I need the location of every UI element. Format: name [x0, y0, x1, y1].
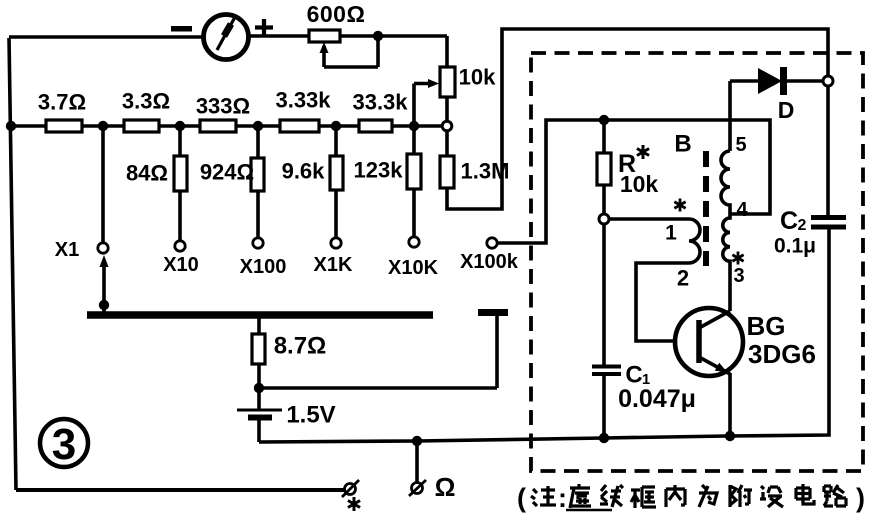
svg-text:1.5V: 1.5V: [286, 401, 335, 428]
svg-text:3: 3: [52, 420, 76, 469]
svg-text:X10: X10: [163, 254, 199, 276]
svg-text:3: 3: [733, 265, 744, 287]
svg-text:3.33k: 3.33k: [275, 88, 331, 113]
svg-text:1.3M: 1.3M: [461, 159, 510, 184]
svg-text:0.1μ: 0.1μ: [774, 234, 816, 257]
svg-text:C: C: [780, 207, 798, 235]
svg-text:2: 2: [677, 266, 689, 291]
svg-text:9.6k: 9.6k: [282, 159, 326, 184]
svg-text:10k: 10k: [620, 171, 659, 197]
svg-text:333Ω: 333Ω: [196, 94, 250, 119]
svg-text:924Ω: 924Ω: [200, 160, 254, 185]
svg-text:): ): [856, 483, 865, 513]
svg-text:X100k: X100k: [460, 251, 519, 273]
svg-text:B: B: [674, 130, 691, 157]
svg-text::: :: [558, 483, 567, 513]
svg-text:600Ω: 600Ω: [307, 1, 366, 27]
svg-text:BG: BG: [747, 311, 786, 341]
svg-text:X10K: X10K: [388, 257, 439, 279]
svg-text:2: 2: [798, 217, 807, 234]
svg-text:10k: 10k: [459, 65, 496, 90]
svg-text:X1K: X1K: [314, 254, 353, 276]
svg-text:1: 1: [665, 221, 677, 244]
svg-text:X100: X100: [240, 256, 287, 278]
svg-text:D: D: [778, 97, 795, 123]
svg-text:0.047μ: 0.047μ: [618, 385, 696, 413]
svg-text:3.3Ω: 3.3Ω: [122, 89, 170, 114]
svg-text:3DG6: 3DG6: [748, 339, 816, 369]
svg-text:4: 4: [736, 199, 748, 221]
svg-text:33.3k: 33.3k: [352, 90, 408, 115]
svg-text:5: 5: [735, 134, 746, 156]
svg-text:123k: 123k: [354, 158, 404, 183]
svg-text:3.7Ω: 3.7Ω: [38, 90, 86, 115]
svg-text:Ω: Ω: [435, 472, 456, 502]
svg-text:(: (: [517, 483, 526, 513]
svg-text:84Ω: 84Ω: [126, 161, 168, 186]
svg-text:8.7Ω: 8.7Ω: [274, 332, 327, 359]
svg-text:X1: X1: [55, 239, 79, 261]
